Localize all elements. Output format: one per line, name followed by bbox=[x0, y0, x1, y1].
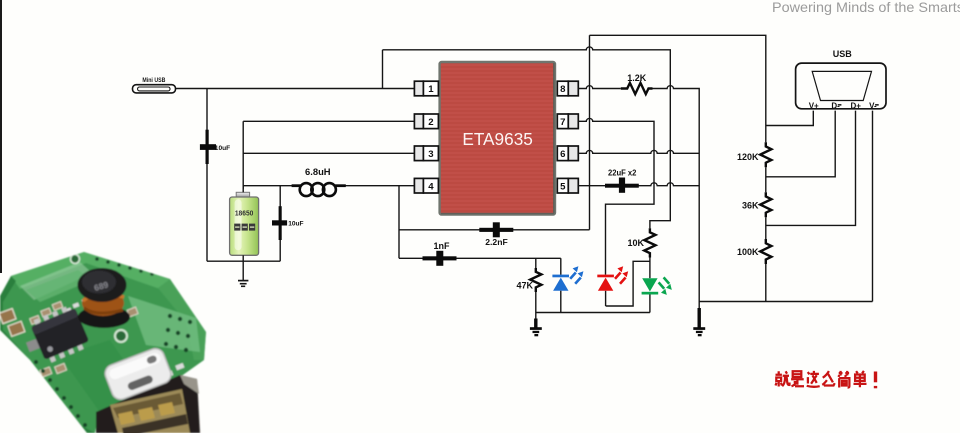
pin 3 bbox=[414, 146, 438, 161]
wire: battery bottom rail bbox=[207, 260, 280, 262]
svg-text:6.8uH: 6.8uH bbox=[305, 166, 331, 177]
svg-text:120K: 120K bbox=[737, 152, 759, 162]
pin 7 bbox=[557, 114, 578, 129]
svg-text:22uF x2: 22uF x2 bbox=[608, 168, 637, 178]
wire: 1.2K to ground rail riser (hop at 670.3) bbox=[653, 86, 700, 318]
wire: 10K bottom to green LED bbox=[649, 258, 651, 279]
ground: battery bbox=[238, 281, 248, 287]
svg-text:100K: 100K bbox=[737, 247, 759, 257]
svg-text:1: 1 bbox=[428, 84, 434, 95]
wire: USB D- to divider tap 1 bbox=[766, 111, 835, 177]
简 bbox=[838, 371, 849, 388]
svg-text:3: 3 bbox=[428, 149, 433, 160]
photo: micro USB socket on PCB bbox=[103, 346, 174, 402]
单 bbox=[854, 371, 867, 387]
wire: USB V- down to bottom rail bbox=[872, 111, 874, 302]
wire: pin 3 row bbox=[243, 152, 414, 154]
resistor R4 120K bbox=[737, 142, 771, 167]
pin 5 bbox=[557, 178, 578, 193]
svg-text:5: 5 bbox=[560, 181, 566, 192]
capacitor C5 22uF x2 bbox=[605, 168, 639, 193]
resistor R5 36K bbox=[742, 192, 771, 217]
wire: USB D+ to divider tap 2 bbox=[766, 111, 856, 226]
wire: green LED top jog to red LED bottom bbox=[606, 261, 650, 306]
wire: divider mid 2 bbox=[765, 217, 767, 239]
svg-text:8: 8 bbox=[560, 84, 566, 95]
wire: divider bottom to rail bbox=[765, 264, 767, 302]
wire: vertical bus x=589.5 (boost output) bbox=[589, 35, 591, 230]
svg-text:Mini USB: Mini USB bbox=[142, 77, 165, 84]
battery BT1 18650 bbox=[230, 192, 259, 255]
就 bbox=[776, 371, 790, 386]
ground: output/feedback rail bbox=[693, 308, 705, 336]
！ fullwidth bbox=[874, 372, 877, 389]
wire: pin 2 row bbox=[243, 120, 414, 122]
resistor R6 100K bbox=[737, 239, 771, 264]
svg-text:USB: USB bbox=[833, 49, 853, 59]
么 bbox=[822, 371, 834, 385]
svg-text:10uF: 10uF bbox=[215, 145, 230, 152]
photo: power inductor coil on PCB bbox=[78, 268, 131, 328]
wire: battery top stub bbox=[242, 186, 244, 193]
pin 8 bbox=[557, 81, 578, 96]
svg-text:V+: V+ bbox=[809, 101, 819, 110]
wire: battery positive rail to pin 4 bbox=[243, 185, 414, 187]
LED D1 blue bbox=[552, 266, 583, 291]
svg-text:10K: 10K bbox=[627, 238, 644, 248]
svg-text:1nF: 1nF bbox=[433, 241, 450, 251]
svg-text:ETA9635: ETA9635 bbox=[462, 129, 533, 149]
wire: pin 7 row to red LED (hop at 589.5) bbox=[578, 118, 654, 274]
wire: USB V+ down to divider top bbox=[766, 111, 814, 126]
LED D3 green bbox=[642, 277, 672, 295]
svg-text:4: 4 bbox=[428, 181, 434, 192]
capacitor C3 2.2nF bbox=[479, 222, 513, 247]
ground: LED rail bbox=[530, 313, 542, 337]
svg-text:10uF: 10uF bbox=[288, 220, 303, 227]
pin 2 bbox=[414, 114, 438, 129]
IC U1 ETA9635 bbox=[440, 62, 555, 215]
这 bbox=[807, 371, 820, 387]
wire: VIN riser to top rail bbox=[382, 50, 384, 89]
svg-text:7: 7 bbox=[560, 117, 565, 128]
wire: Mini USB to pin 1 (VIN row) bbox=[176, 88, 415, 90]
wire: top rail y=35.3 to divider chain bbox=[590, 35, 766, 142]
resistor R3 47K bbox=[516, 258, 541, 312]
svg-text:2.2nF: 2.2nF bbox=[485, 237, 507, 247]
photo: USB-A plug shell under PCB bbox=[96, 375, 200, 433]
wire: 1nF rail bbox=[399, 257, 561, 259]
photo: SOP-8 IC on PCB bbox=[29, 303, 91, 364]
capacitor C4 1nF bbox=[423, 241, 457, 266]
photo: power bank module PCB bbox=[0, 252, 206, 433]
LED D2 red bbox=[597, 266, 628, 291]
wire: VIN top rail y=49.8 to EN/10K branch (hop at x=589.5) bbox=[383, 47, 671, 228]
resistor R1 1.2K bbox=[621, 73, 653, 94]
pin 1 bbox=[414, 81, 438, 96]
wire: blue LED branch bbox=[560, 258, 562, 312]
wire: battery bottom to ground bbox=[242, 255, 244, 280]
svg-text:2: 2 bbox=[428, 117, 433, 128]
svg-text:36K: 36K bbox=[742, 200, 759, 210]
是 bbox=[791, 371, 804, 386]
svg-text:18650: 18650 bbox=[235, 211, 254, 218]
wire: pin 5 row through 22uF to ground rail (hops at 654, 670.3) bbox=[578, 183, 699, 186]
capacitor C1 10uF bbox=[200, 130, 230, 164]
wire: pin 8 row to 1.2K (hop at 589.5) bbox=[578, 86, 621, 89]
wire: pin 4 node down to snubber rails bbox=[398, 186, 400, 259]
caption "就是这么简单！" (red) bbox=[776, 371, 876, 388]
wire: input cap branch down to battery negative rail bbox=[206, 89, 208, 262]
wire: output cap branch bbox=[279, 186, 281, 262]
pin 6 bbox=[557, 146, 578, 161]
connector J2 USB-A bbox=[796, 49, 886, 111]
pin 4 bbox=[414, 178, 438, 193]
wire: pin 6 row to ground rail (hops at 589.5, 654, 670.3) bbox=[578, 150, 699, 153]
svg-text:D-: D- bbox=[831, 101, 840, 110]
wire: 2.2nF rail bbox=[399, 229, 590, 231]
wire: bottom right rail bbox=[699, 301, 872, 303]
wire: green LED bottom bbox=[649, 295, 651, 313]
svg-text:47K: 47K bbox=[516, 281, 533, 291]
connector J1 Mini USB bbox=[133, 77, 176, 93]
svg-text:V-: V- bbox=[869, 101, 877, 110]
svg-text:Powering Minds of the Smarts: Powering Minds of the Smarts bbox=[772, 0, 960, 15]
capacitor C2 10uF bbox=[272, 206, 304, 240]
svg-text:1.2K: 1.2K bbox=[627, 73, 647, 83]
svg-text:6: 6 bbox=[560, 149, 565, 160]
wire: LED bottom rail bbox=[536, 312, 650, 314]
svg-text:D+: D+ bbox=[850, 101, 861, 110]
inductor L1 6.8uH bbox=[292, 166, 346, 196]
resistor R2 10K bbox=[627, 228, 655, 257]
wire: divider mid 1 bbox=[765, 167, 767, 192]
wire: battery positive riser bbox=[242, 121, 244, 189]
